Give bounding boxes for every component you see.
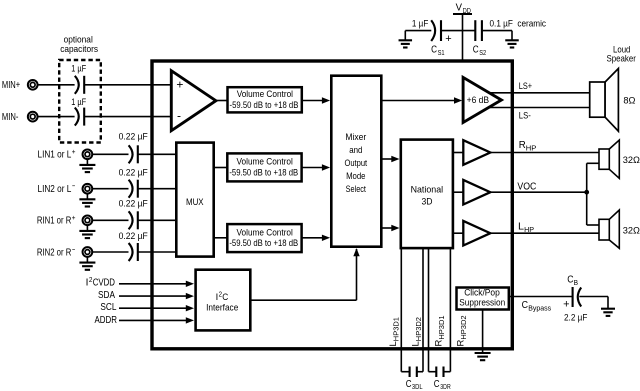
svg-text:V: V <box>456 2 462 14</box>
svg-text:C: C <box>473 43 479 55</box>
svg-text:MUX: MUX <box>186 197 204 208</box>
svg-text:Select: Select <box>346 183 367 194</box>
svg-text:0.22 µF: 0.22 µF <box>119 198 148 209</box>
svg-text:LIN1 or L: LIN1 or L <box>38 150 72 161</box>
svg-text:Volume Control: Volume Control <box>237 226 293 237</box>
svg-text:LS-: LS- <box>519 109 531 120</box>
svg-text:SDA: SDA <box>98 290 115 301</box>
svg-text:C: C <box>431 43 437 55</box>
svg-text:National: National <box>411 183 444 194</box>
svg-text:+: + <box>72 147 76 156</box>
svg-text:-59.50 dB to +18 dB: -59.50 dB to +18 dB <box>229 166 298 177</box>
svg-text:C: C <box>522 300 528 311</box>
svg-text:B: B <box>574 278 578 287</box>
svg-text:3DL: 3DL <box>412 382 423 391</box>
svg-text:+6 dB: +6 dB <box>467 95 490 105</box>
svg-text:LIN2 or L: LIN2 or L <box>38 184 72 195</box>
svg-text:C: C <box>567 275 573 286</box>
svg-text:+: + <box>445 33 451 45</box>
svg-text:0.1 µF ceramic: 0.1 µF ceramic <box>490 17 547 28</box>
svg-text:RIN2 or R: RIN2 or R <box>37 247 71 258</box>
svg-text:S2: S2 <box>479 48 486 57</box>
svg-text:C: C <box>406 379 412 390</box>
svg-text:RHP3D2: RHP3D2 <box>456 315 469 346</box>
svg-text:HP: HP <box>526 144 537 153</box>
svg-text:-: - <box>177 108 181 122</box>
svg-text:Bypass: Bypass <box>528 303 551 312</box>
svg-text:RIN1 or R: RIN1 or R <box>37 216 71 227</box>
svg-text:CVDD: CVDD <box>93 278 115 289</box>
svg-text:0.22 µF: 0.22 µF <box>119 167 148 178</box>
svg-text:Mixer: Mixer <box>345 131 366 142</box>
svg-text:-: - <box>72 181 76 190</box>
svg-text:MIN-: MIN- <box>2 112 19 123</box>
svg-text:Suppression: Suppression <box>459 298 505 308</box>
svg-text:8Ω: 8Ω <box>623 96 635 107</box>
svg-text:LHP3D2: LHP3D2 <box>410 317 423 346</box>
svg-text:+: + <box>176 77 183 91</box>
svg-text:capacitors: capacitors <box>60 43 98 54</box>
svg-text:+: + <box>563 299 569 311</box>
svg-text:R: R <box>519 140 526 151</box>
svg-text:+: + <box>72 213 76 222</box>
svg-text:Output: Output <box>344 157 367 168</box>
svg-text:32Ω: 32Ω <box>623 155 640 166</box>
svg-text:Mode: Mode <box>346 170 365 181</box>
svg-text:-59.50 dB to +18 dB: -59.50 dB to +18 dB <box>230 99 299 110</box>
svg-text:and: and <box>349 144 362 155</box>
svg-text:LHP3D1: LHP3D1 <box>388 317 401 346</box>
svg-text:-: - <box>72 245 76 254</box>
svg-text:Click/Pop: Click/Pop <box>464 288 500 298</box>
svg-text:ADDR: ADDR <box>95 315 118 326</box>
svg-text:SCL: SCL <box>100 302 116 313</box>
svg-text:S1: S1 <box>438 48 445 57</box>
svg-text:1 µF: 1 µF <box>71 96 86 107</box>
svg-text:HP: HP <box>524 225 534 234</box>
svg-text:MIN+: MIN+ <box>2 80 20 91</box>
svg-text:C: C <box>434 379 440 390</box>
svg-text:Speaker: Speaker <box>606 53 636 63</box>
svg-text:32Ω: 32Ω <box>623 226 640 237</box>
svg-text:LS+: LS+ <box>519 80 533 91</box>
svg-text:Volume Control: Volume Control <box>237 156 293 167</box>
svg-text:3D: 3D <box>422 196 433 207</box>
svg-text:1 µF: 1 µF <box>71 62 86 73</box>
svg-text:-59.50 dB to +18 dB: -59.50 dB to +18 dB <box>229 237 298 248</box>
svg-text:1 µF: 1 µF <box>412 17 429 28</box>
svg-text:0.22 µF: 0.22 µF <box>119 230 148 241</box>
svg-text:2.2 µF: 2.2 µF <box>564 312 588 323</box>
svg-text:Volume Control: Volume Control <box>237 88 293 99</box>
svg-text:VOC: VOC <box>517 181 536 192</box>
svg-text:Interface: Interface <box>206 302 238 313</box>
svg-text:RHP3D1: RHP3D1 <box>434 315 447 346</box>
svg-text:3DR: 3DR <box>440 382 451 391</box>
svg-text:0.22 µF: 0.22 µF <box>119 131 148 142</box>
